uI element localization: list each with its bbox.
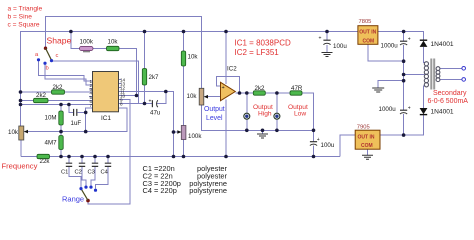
wire 2k2 upper row to pin4 (21, 91, 52, 93)
wire 7905 OUT to -rail (340, 135, 355, 156)
node dots top rail (69, 30, 405, 34)
wire -5V rail (21, 156, 340, 158)
wire IC1 pin11 run to -rail (119, 92, 174, 157)
svg-text:10M: 10M (45, 115, 57, 122)
node dots pin7 row (59, 103, 70, 107)
capacitor 100u (mid, -5V rail) (310, 137, 335, 149)
svg-text:C3: C3 (88, 169, 95, 175)
svg-text:47u: 47u (150, 110, 161, 117)
ground (PSU 0V) (372, 88, 384, 92)
resistor 2k7 (vertical) (142, 69, 159, 86)
wire 10k to pin10 node (119, 49, 137, 96)
wire primary bottom (440, 78, 462, 80)
svg-text:+: + (149, 98, 152, 104)
diode 1N4001 (top) (420, 40, 454, 48)
svg-text:4M7: 4M7 (45, 140, 58, 147)
svg-text:Low: Low (294, 111, 306, 118)
resistor 10k (vertical, right of IC1) (181, 51, 198, 66)
svg-text:C4: C4 (101, 169, 109, 175)
resistor 2k2 upper (52, 84, 65, 94)
terminal Output Low (274, 113, 280, 119)
wire range cap C1 stub (68, 157, 70, 164)
diode 1N4001 (bottom) (420, 108, 454, 116)
svg-text:1000u: 1000u (379, 106, 397, 113)
svg-text:+: + (408, 36, 411, 42)
regulator 7805 (358, 19, 378, 44)
svg-text:IC2: IC2 (227, 66, 237, 73)
potentiometer 10k Output Level (187, 88, 209, 105)
regulator 7905 (355, 124, 380, 149)
svg-text:7: 7 (89, 103, 92, 108)
svg-text:IC2 = LF351: IC2 = LF351 (235, 48, 280, 57)
capacitor C4 220p (101, 163, 112, 175)
wire freq pot bottom (20, 140, 22, 157)
svg-text:2k2: 2k2 (255, 85, 266, 92)
svg-text:100k: 100k (80, 39, 94, 46)
wire switch pole to output level pot (over the top) (46, 17, 202, 89)
wire PSU center bus (403, 32, 405, 42)
wire PSU ground branch (378, 81, 403, 88)
wire 2k2 lower row to pin6 (21, 100, 34, 102)
svg-text:10k: 10k (108, 39, 119, 46)
wire 100k/10k timing branch (71, 32, 80, 49)
svg-text:IC1: IC1 (101, 115, 111, 122)
wire 7805 IN to diode (378, 32, 424, 41)
svg-text:b: b (46, 66, 49, 72)
wire IC1 pin9 to range switch pole (88, 100, 130, 205)
wire 2k7 top (144, 32, 146, 69)
node dots PSU bus (402, 59, 406, 137)
wire 10k resistor chain top (183, 32, 185, 52)
svg-text:+: + (319, 35, 322, 41)
transformer T1 (424, 59, 465, 90)
svg-text:1000u: 1000u (381, 43, 399, 50)
wire 1uF left (69, 105, 73, 113)
wire range cap C4 stub (107, 157, 109, 164)
capacitor 1000u (bottom) (379, 105, 411, 114)
svg-text:OUT IN: OUT IN (358, 135, 375, 141)
wire 47u right to pin11 run (157, 92, 166, 104)
wire 100u mid cap (313, 130, 315, 141)
node dots left bus (19, 90, 23, 106)
wire pot wiper row / pin strap frame (25, 108, 127, 132)
terminal Output High (244, 113, 250, 119)
wire 7805 COM to ground bus (368, 44, 404, 61)
node dots ground rail (245, 129, 315, 133)
wire primary top (440, 67, 462, 69)
svg-text:Output: Output (204, 106, 225, 113)
svg-text:Shape: Shape (47, 36, 72, 46)
svg-text:OUT IN: OUT IN (359, 30, 376, 36)
svg-text:C2: C2 (75, 169, 82, 175)
svg-text:a = Triangle: a = Triangle (8, 6, 43, 13)
svg-text:+: + (408, 105, 411, 111)
svg-text:100u: 100u (333, 43, 347, 50)
wire secondary bottom to bottom diode (424, 86, 426, 108)
resistor 22k (in -rail) (37, 154, 50, 165)
svg-text:Secondary: Secondary (433, 90, 467, 97)
wire between 100k preset and 10k (93, 48, 107, 50)
resistor 10M (vertical) (45, 111, 64, 125)
node dots IC1 right (135, 90, 176, 134)
IC1 8038 body (93, 72, 119, 123)
wire range cap C3 stub (94, 157, 96, 164)
capacitor 1uF (71, 109, 82, 127)
svg-text:100k: 100k (188, 133, 202, 140)
wire 7905 COM stub (367, 149, 369, 155)
svg-text:Level: Level (206, 115, 223, 122)
wire ground stub mid (262, 130, 264, 134)
wire 2k7 bottom to pin8 row (144, 85, 146, 104)
svg-text:2k2: 2k2 (36, 92, 47, 99)
resistor 2k2 lower (34, 92, 49, 103)
capacitor 100u (+5V rail) (319, 35, 348, 50)
node dots wiper row (59, 111, 87, 134)
potentiometer 10k Frequency (8, 126, 28, 140)
svg-text:22k: 22k (40, 158, 51, 165)
ground (7905 COM) (362, 155, 373, 159)
capacitor C3 2200p (88, 163, 99, 175)
svg-text:100u: 100u (321, 142, 335, 149)
capacitor C1 220n (61, 163, 72, 175)
wire IC1 pin8 row to 47u (119, 103, 153, 105)
svg-text:High: High (258, 111, 272, 118)
svg-text:10k: 10k (8, 129, 19, 136)
node dots output row (238, 91, 279, 95)
svg-text:10k: 10k (187, 93, 198, 100)
svg-text:Range: Range (62, 195, 84, 204)
svg-text:IC1 = 8038PCD: IC1 = 8038PCD (235, 39, 291, 48)
wire +5V top rail and left bus (21, 32, 358, 127)
svg-text:6-0-6 500mA: 6-0-6 500mA (428, 98, 469, 105)
svg-text:COM: COM (363, 38, 375, 44)
switch Shape (pole and contacts) (35, 47, 59, 72)
resistor 100k preset (horizontal) (80, 39, 94, 52)
wire IC1 pin10 stub (119, 95, 137, 97)
svg-text:COM: COM (361, 143, 373, 149)
wire output low terminal stubs (276, 93, 278, 114)
svg-text:8: 8 (120, 102, 123, 107)
potentiometer 100k sine-adjust (177, 126, 202, 141)
wire range cap C2 stub (81, 157, 83, 164)
wire switch b to pin2 (45, 64, 89, 86)
svg-text:2k2: 2k2 (53, 84, 64, 91)
svg-text:C1: C1 (61, 169, 68, 175)
wire IC1 right pin stubs (119, 80, 122, 104)
wire output high terminal stubs (246, 93, 248, 114)
svg-text:polystyrene: polystyrene (189, 186, 227, 195)
svg-text:1N4001: 1N4001 (431, 41, 454, 48)
wire 10k resistor to 100k pot (183, 66, 185, 126)
svg-text:+: + (317, 137, 320, 143)
svg-text:+: + (222, 85, 225, 91)
svg-text:10k: 10k (188, 54, 199, 61)
wire IC2 V- (225, 100, 227, 157)
svg-text:c = Square: c = Square (8, 22, 40, 29)
wire ground rail with output level pot bottom (202, 105, 314, 130)
capacitor C2 22n (75, 163, 86, 175)
wire IC1 left pin stubs (89, 81, 93, 105)
svg-text:Frequency: Frequency (2, 161, 38, 170)
wire 100u left cap drop (326, 32, 328, 41)
svg-text:7805: 7805 (359, 19, 372, 25)
switch Range (rotary) (79, 186, 97, 203)
resistor 2k2 (output attenuator) (253, 85, 265, 95)
wire IC2 feedback loop (217, 77, 240, 93)
svg-text:b = Sine: b = Sine (8, 14, 33, 21)
node dots -5V rail (59, 155, 315, 159)
wire bus row to pin7 (21, 104, 90, 106)
svg-text:C4 = 220p: C4 = 220p (143, 186, 177, 195)
resistor 47R (290, 85, 303, 95)
wire 100k pot wiper tie (174, 131, 181, 133)
resistor 10k (top row) (107, 39, 120, 51)
resistor 4M7 (vertical) (45, 136, 64, 150)
svg-text:1N4001: 1N4001 (431, 109, 454, 116)
ground (output section) (257, 134, 268, 138)
svg-text:c: c (56, 53, 59, 59)
svg-text:47R: 47R (291, 85, 303, 92)
svg-text:1uF: 1uF (71, 120, 82, 127)
wire 1uF right to IC and down (77, 108, 92, 112)
ground (under 100u) (322, 53, 333, 57)
capacitor 1000u (top) (381, 36, 411, 49)
wire bottom diode to -raw rail (380, 115, 424, 135)
wire switch c to pin8 row (52, 61, 139, 104)
wire IC2 V+ (225, 32, 227, 85)
svg-text:7905: 7905 (357, 124, 370, 130)
capacitor 47u (electrolytic) (149, 98, 161, 116)
wire 10M chain (60, 105, 62, 112)
svg-text:2k7: 2k7 (149, 74, 160, 81)
wire 47R to ground rail corner (302, 93, 314, 130)
wire op-amp output row (235, 92, 253, 94)
wire 100k pot bottom to -rail (183, 140, 185, 157)
wire switch a to pin1 (39, 60, 90, 81)
op-amp U IC2 LF351 (221, 66, 238, 101)
wire level pot wiper to op-amp (205, 96, 221, 98)
wire top diode to secondary top (424, 47, 426, 63)
wire transformer center tap (404, 74, 425, 76)
